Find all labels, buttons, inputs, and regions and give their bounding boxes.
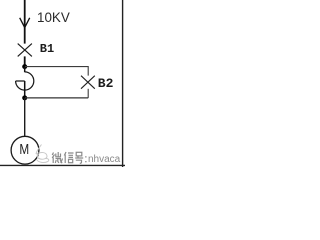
switch B1 (X symbol) [18, 44, 32, 57]
wire: bottom branch horizontal [25, 97, 88, 99]
border: right frame line [122, 0, 124, 167]
svg-text:10KV: 10KV [37, 10, 70, 25]
wire: B2 down to bottom branch [87, 89, 89, 98]
wire: node B down to motor [24, 98, 26, 137]
switch B2 (X symbol) [81, 76, 95, 89]
wire: B1 to top node [24, 56, 26, 67]
watermark text 微 (drawn strokes) [52, 152, 62, 163]
node B: bottom junction dot [22, 95, 27, 100]
watermark text 信 (drawn strokes) [64, 152, 73, 163]
svg-text:nhvaca: nhvaca [88, 154, 121, 165]
wire: incoming 10KV feeder vertical [24, 0, 26, 44]
svg-text:B1: B1 [40, 42, 54, 56]
watermark logo swirl [36, 145, 49, 163]
motor M1 circle [11, 136, 39, 164]
svg-text:M: M [19, 142, 29, 158]
node A: top junction dot [22, 64, 27, 69]
arrow head on feeder [20, 18, 30, 28]
reactor L1 (3/4 circle with radius tap) [16, 72, 34, 90]
wire: reactor center down to node B [24, 81, 26, 98]
border: bottom frame line [0, 164, 125, 166]
watermark text 号 (drawn strokes) [75, 152, 83, 163]
svg-text:B2: B2 [98, 76, 114, 91]
watermark colon [85, 156, 86, 162]
wire: reactor feed from node A [24, 67, 26, 72]
wire: top branch horizontal to B2 [25, 67, 88, 76]
